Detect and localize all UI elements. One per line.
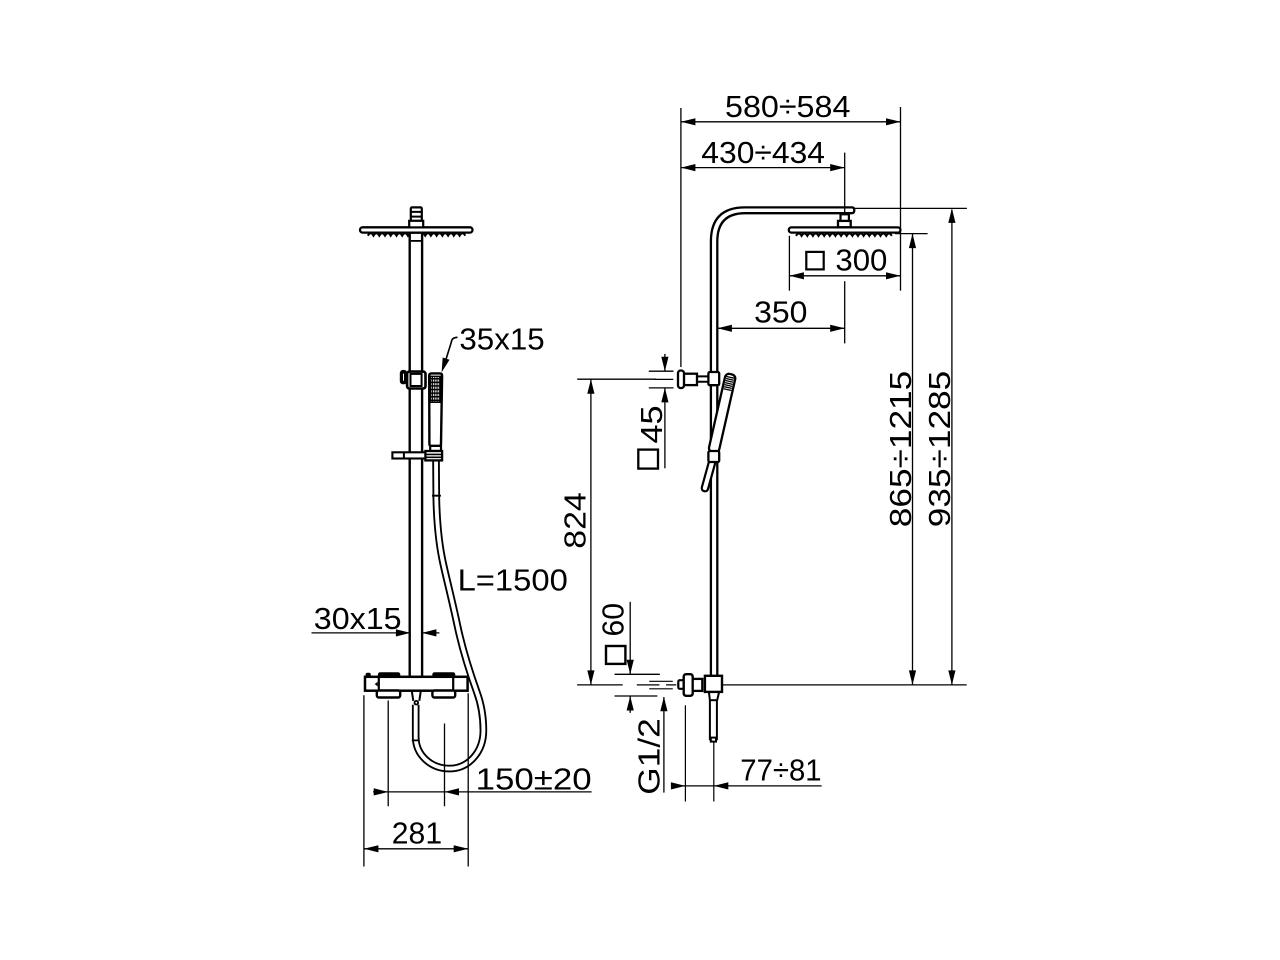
holder slide bar — [392, 452, 429, 458]
temperature marker on left handle — [375, 682, 378, 687]
riser pipe (front) — [410, 233, 422, 678]
union nuts (bottom) — [377, 691, 400, 698]
svg-text:150±20: 150±20 — [476, 762, 592, 797]
svg-text:935÷1285: 935÷1285 — [922, 371, 957, 528]
extension line x=844.7 (head axis, lower for 350) — [844, 281, 846, 343]
shower head spray edge (front) — [368, 233, 466, 235]
extension line x=844.7 (head axis, upper) — [844, 153, 846, 232]
hand shower hanging (side) — [708, 373, 736, 453]
reference line at arm top — [854, 207, 967, 209]
svg-text:281: 281 — [392, 816, 442, 851]
dimension 935÷1285 — [951, 210, 953, 685]
dimension 580÷584 — [681, 107, 901, 367]
svg-text:45: 45 — [634, 406, 669, 444]
dimension □45 — [649, 371, 674, 388]
hand shower neck — [430, 446, 441, 451]
shower arm with bend and riser (side) — [745, 207, 854, 213]
hand shower (front) — [429, 373, 442, 446]
slider knob (front) — [401, 371, 407, 384]
dimension □300 — [788, 236, 790, 291]
thermostatic valve (side) — [678, 680, 683, 689]
wall union escutcheons (top) — [379, 673, 400, 677]
hose outlet under mixer — [412, 692, 421, 701]
dimension 824 — [577, 378, 656, 380]
svg-text:35x15: 35x15 — [459, 321, 544, 356]
head connector (side) — [841, 214, 849, 221]
holder collar on riser (side) — [708, 451, 719, 462]
svg-text:865÷1215: 865÷1215 — [883, 371, 918, 528]
dimension □60 — [615, 674, 660, 696]
top supply nipple — [411, 207, 422, 221]
dimension 30x15 — [312, 632, 440, 634]
svg-text:60: 60 — [596, 603, 631, 637]
valve axis reference line — [577, 684, 967, 686]
outlet taper and tube (side) — [709, 692, 719, 700]
svg-text:824: 824 — [557, 492, 592, 549]
label 35x15 with leader — [444, 337, 458, 367]
head collar — [409, 221, 423, 228]
dimension 77÷81 — [685, 705, 713, 801]
dimension 865÷1215 — [912, 234, 914, 685]
slider knob (side) — [697, 376, 709, 381]
svg-text:30x15: 30x15 — [314, 601, 402, 636]
svg-text:G1/2: G1/2 — [632, 718, 667, 795]
hose joint ticks — [412, 496, 441, 741]
reference line under head (side) — [895, 233, 928, 235]
dimension 150±20 — [388, 701, 444, 807]
head plate (side) — [796, 234, 892, 236]
slider bracket on pipe — [407, 372, 425, 389]
dimension 350 — [717, 327, 844, 329]
svg-text:L=1500: L=1500 — [458, 562, 568, 597]
svg-text:300: 300 — [835, 242, 887, 277]
svg-text:350: 350 — [754, 295, 807, 330]
svg-text:77÷81: 77÷81 — [740, 753, 821, 788]
small nub top-left — [366, 673, 370, 676]
wire hose (hand-shower flexible hose, L=1500) — [412, 459, 484, 769]
shower head plate (front) — [360, 227, 473, 232]
spray-face grid of hand shower — [431, 376, 441, 402]
svg-text:430÷434: 430÷434 — [701, 135, 825, 170]
hidden inlet dashes — [649, 681, 673, 689]
slider collar on riser (side) — [708, 372, 719, 385]
pipe fitting line below head — [411, 240, 421, 242]
dimension 281 — [364, 693, 468, 866]
hose nut — [425, 451, 442, 460]
thermostatic mixer body (front) — [365, 677, 468, 691]
label G1/2 — [663, 697, 665, 793]
dimension 430÷434 — [681, 167, 845, 169]
svg-text:580÷584: 580÷584 — [725, 89, 850, 124]
